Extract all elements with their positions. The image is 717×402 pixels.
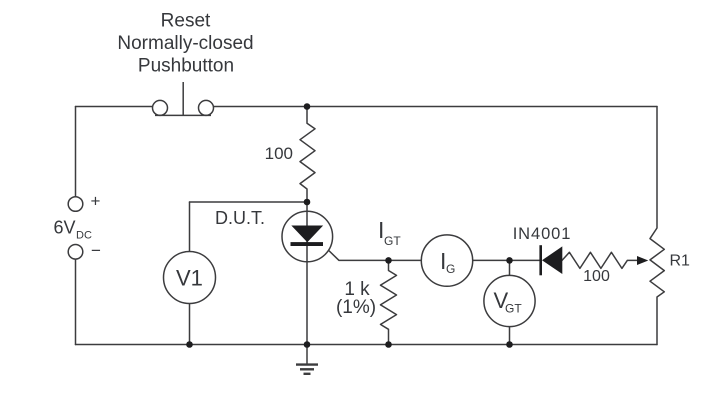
node 1k bottom xyxy=(385,341,392,348)
node ground xyxy=(304,341,311,348)
svg-text:V1: V1 xyxy=(176,266,203,291)
svg-text:−: − xyxy=(91,241,101,260)
node V1 bottom xyxy=(186,341,193,348)
svg-text:GT: GT xyxy=(384,234,401,248)
svg-text:GT: GT xyxy=(505,302,522,316)
wire left upper xyxy=(75,107,77,197)
ground xyxy=(296,345,318,374)
diode D1 IN4001 xyxy=(541,245,563,275)
svg-text:G: G xyxy=(446,262,455,276)
wire top left segment xyxy=(76,106,154,108)
label 6VDC xyxy=(54,218,92,242)
pushbutton left contact xyxy=(153,100,168,115)
svg-text:6V: 6V xyxy=(54,218,76,238)
SCR triangle xyxy=(293,226,323,242)
svg-text:100: 100 xyxy=(583,268,610,285)
node DUT anode xyxy=(304,199,311,206)
svg-text:Normally-closed: Normally-closed xyxy=(117,33,253,54)
wire V1 top column xyxy=(189,202,191,252)
svg-text:Reset: Reset xyxy=(161,11,211,32)
meter VGT xyxy=(484,275,535,326)
svg-text:IN4001: IN4001 xyxy=(513,225,572,243)
svg-text:D.U.T.: D.U.T. xyxy=(215,208,265,228)
battery 6VDC negative terminal xyxy=(68,245,83,260)
pushbutton bar xyxy=(155,114,211,116)
svg-text:DC: DC xyxy=(76,230,92,242)
pushbutton actuator xyxy=(182,82,184,115)
wire VGT column xyxy=(509,260,511,344)
wire gate row xyxy=(322,244,541,260)
wire V1 bottom column xyxy=(189,304,191,345)
meter IG xyxy=(421,235,472,286)
junction node dots xyxy=(186,103,513,348)
label Reset Normally-closed Pushbutton xyxy=(117,11,253,77)
meter V1 xyxy=(164,252,216,304)
wire bottom xyxy=(76,344,658,346)
node gate / 1k top xyxy=(385,257,392,264)
wire anode row xyxy=(190,201,308,203)
wire DUT anode-cathode column xyxy=(306,202,308,345)
pushbutton right contact xyxy=(199,100,214,115)
svg-text:+: + xyxy=(91,192,101,211)
thyristor D.U.T. U1 xyxy=(282,202,333,345)
node diode / VGT top xyxy=(506,257,513,264)
potentiometer R1 xyxy=(650,107,664,345)
wiper arrowhead R1 xyxy=(637,256,648,265)
node top of 100 resistor xyxy=(304,103,311,110)
svg-text:Pushbutton: Pushbutton xyxy=(138,56,234,77)
node VGT bottom xyxy=(506,341,513,348)
pushbutton S1 normally-closed xyxy=(153,82,214,115)
resistor 100 vertical xyxy=(300,107,315,203)
wire top right segment xyxy=(213,106,657,108)
svg-text:100: 100 xyxy=(265,144,293,163)
battery 6VDC positive terminal xyxy=(68,197,83,212)
svg-text:R1: R1 xyxy=(670,253,691,270)
svg-text:(1%): (1%) xyxy=(336,297,376,318)
resistor 1k xyxy=(381,260,397,344)
resistor 100 horizontal xyxy=(562,252,638,268)
label IGT xyxy=(378,217,401,248)
SCR cathode bar xyxy=(291,242,324,246)
label 1k 1% xyxy=(336,279,376,318)
wire left lower xyxy=(75,259,77,344)
